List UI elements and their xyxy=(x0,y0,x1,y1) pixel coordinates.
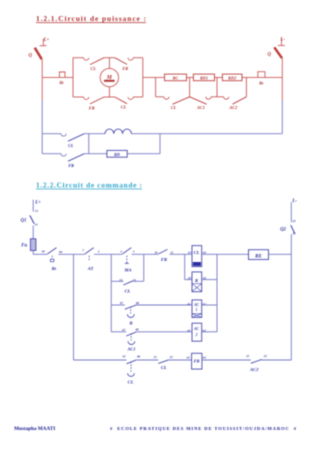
svg-text:68: 68 xyxy=(136,301,140,305)
svg-text:A1: A1 xyxy=(185,355,190,359)
svg-text:AC: AC xyxy=(193,327,199,331)
svg-text:96: 96 xyxy=(59,250,63,254)
svg-text:67: 67 xyxy=(120,301,124,305)
svg-text:CL: CL xyxy=(171,105,177,110)
svg-text:Mustapha MAATI: Mustapha MAATI xyxy=(14,426,55,432)
svg-text:21: 21 xyxy=(153,355,158,359)
svg-text:1.2.1.Circuit de puissance :: 1.2.1.Circuit de puissance : xyxy=(36,14,146,23)
svg-text:RD: RD xyxy=(114,152,120,157)
svg-text:L-: L- xyxy=(279,37,285,42)
svg-text:FR: FR xyxy=(68,163,74,168)
svg-text:Q: Q xyxy=(28,53,32,58)
svg-text:A1: A1 xyxy=(186,302,191,306)
svg-text:24: 24 xyxy=(292,231,297,235)
svg-text:CL: CL xyxy=(125,288,131,293)
svg-text:10: 10 xyxy=(154,251,158,255)
svg-text:FR: FR xyxy=(161,257,167,262)
svg-text:4: 4 xyxy=(132,249,135,253)
svg-text:AC1: AC1 xyxy=(196,105,205,110)
svg-text:RD2: RD2 xyxy=(228,75,237,80)
svg-text:RC: RC xyxy=(173,75,179,80)
svg-text:68: 68 xyxy=(135,328,139,332)
svg-text:2: 2 xyxy=(97,249,100,253)
svg-text:AC2: AC2 xyxy=(228,105,238,110)
svg-text:98: 98 xyxy=(137,355,141,359)
svg-text:21: 21 xyxy=(245,354,250,358)
svg-text:13: 13 xyxy=(35,209,39,213)
svg-text:1: 1 xyxy=(196,308,198,312)
svg-text:R: R xyxy=(129,321,132,326)
svg-text:MA: MA xyxy=(123,267,131,272)
svg-text:23: 23 xyxy=(292,219,297,223)
svg-text:67: 67 xyxy=(122,328,126,332)
svg-text:# ECOLE PRATIQUE DES MINE DE: # ECOLE PRATIQUE DES MINE DE TOUISSIT/OU… xyxy=(110,426,297,431)
svg-text:14: 14 xyxy=(35,223,39,227)
svg-text:L+: L+ xyxy=(34,200,41,205)
svg-text:97: 97 xyxy=(123,355,127,359)
svg-text:13: 13 xyxy=(119,278,123,282)
svg-text:Q: Q xyxy=(267,52,271,57)
svg-text:A1: A1 xyxy=(187,251,192,255)
svg-text:CL: CL xyxy=(121,104,127,109)
svg-text:CL: CL xyxy=(194,250,200,255)
svg-text:AT: AT xyxy=(87,266,94,271)
svg-text:L-: L- xyxy=(291,199,297,204)
svg-text:A1: A1 xyxy=(187,276,192,280)
svg-text:95: 95 xyxy=(42,250,46,254)
svg-text:L+: L+ xyxy=(43,38,50,43)
svg-text:AC1: AC1 xyxy=(126,347,135,352)
svg-text:CL: CL xyxy=(161,365,167,370)
svg-text:FR: FR xyxy=(194,358,200,363)
svg-text:2: 2 xyxy=(195,333,198,337)
svg-text:RE: RE xyxy=(255,254,262,259)
svg-text:Rt: Rt xyxy=(52,266,57,271)
svg-text:R: R xyxy=(195,278,198,283)
svg-text:A1: A1 xyxy=(186,329,191,333)
svg-text:CL: CL xyxy=(90,66,96,71)
svg-text:FR: FR xyxy=(122,66,128,71)
svg-text:22: 22 xyxy=(169,355,174,359)
svg-text:Fu: Fu xyxy=(21,243,27,248)
svg-text:Q1: Q1 xyxy=(21,218,27,223)
svg-text:1.2.2.Circuit de commande :: 1.2.2.Circuit de commande : xyxy=(36,181,142,190)
svg-text:CL: CL xyxy=(128,379,134,384)
svg-text:AC2: AC2 xyxy=(249,367,259,372)
svg-text:RD1: RD1 xyxy=(200,75,208,80)
svg-text:FR: FR xyxy=(89,105,95,110)
svg-text:3: 3 xyxy=(119,249,122,253)
svg-text:CL: CL xyxy=(68,143,74,148)
svg-text:22: 22 xyxy=(263,354,268,358)
svg-text:A2: A2 xyxy=(201,355,206,359)
svg-text:14: 14 xyxy=(133,278,137,282)
svg-text:AC: AC xyxy=(193,303,199,307)
svg-text:Q2: Q2 xyxy=(280,228,286,233)
